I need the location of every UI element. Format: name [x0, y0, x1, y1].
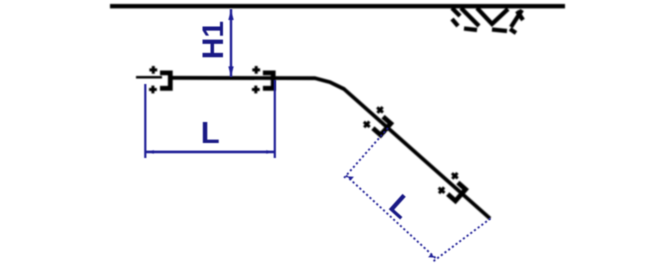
svg-text:L: L [383, 189, 419, 226]
svg-text:H1: H1 [197, 21, 230, 59]
svg-text:L: L [201, 115, 220, 150]
